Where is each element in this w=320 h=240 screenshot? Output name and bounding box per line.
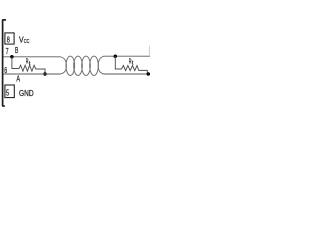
cable twist loop 4 <box>90 56 99 75</box>
pin 8 box <box>5 33 14 44</box>
wire A right segment <box>104 73 149 75</box>
cable twist loop 1 <box>66 56 75 75</box>
junction dot right top <box>114 54 118 58</box>
svg-text:7: 7 <box>6 47 9 56</box>
svg-text:8: 8 <box>7 36 10 45</box>
svg-text:CC: CC <box>24 39 30 45</box>
svg-text:5: 5 <box>6 89 9 98</box>
wire B right segment <box>104 55 151 57</box>
svg-text:A: A <box>16 75 20 84</box>
junction dot right bottom <box>147 72 151 76</box>
cable twist loop 2 <box>74 56 83 75</box>
cable entry half-twist <box>61 57 67 74</box>
junction dot A / Rt1 <box>43 72 47 76</box>
pin 5 box <box>5 85 14 98</box>
resistor Rt (left termination) <box>12 57 45 74</box>
wire A (pin 6 to cable) <box>3 73 60 75</box>
svg-text:B: B <box>15 46 18 55</box>
junction dot B / Rt1 <box>10 55 14 59</box>
wire B (pin 7 to cable) <box>3 56 60 58</box>
transceiver U1 right edge (IC body bracket) <box>2 20 6 106</box>
partial edge of next device (faint, right margin) <box>148 46 150 56</box>
twisted pair cable <box>61 56 105 75</box>
cable exit half-twist <box>98 56 104 74</box>
resistor Rt (right termination) <box>115 56 147 74</box>
svg-text:GND: GND <box>19 89 34 98</box>
cable twist loop 3 <box>82 56 91 75</box>
